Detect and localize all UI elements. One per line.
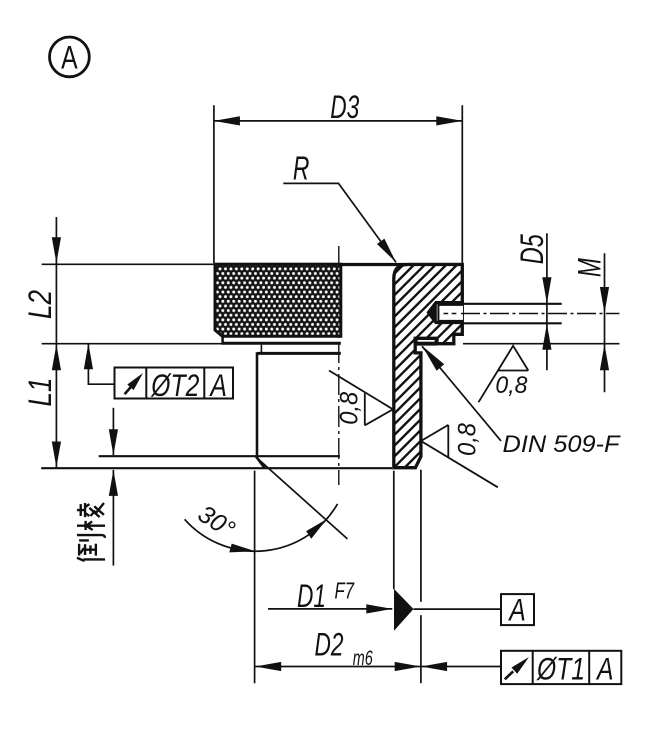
svg-text:D1: D1 (297, 578, 326, 614)
svg-text:A: A (61, 40, 78, 76)
svg-text:m6: m6 (353, 647, 373, 670)
svg-text:F7: F7 (335, 577, 355, 603)
svg-text:ØT1: ØT1 (536, 651, 585, 687)
svg-text:R: R (293, 150, 310, 187)
svg-text:0,8: 0,8 (336, 392, 364, 425)
svg-text:0,8: 0,8 (454, 423, 482, 456)
svg-text:L1: L1 (22, 378, 58, 407)
svg-text:DIN 509-F: DIN 509-F (503, 431, 621, 458)
svg-text:ØT2: ØT2 (151, 367, 200, 403)
svg-text:D5: D5 (514, 234, 550, 264)
svg-text:A: A (508, 592, 526, 628)
svg-text:A: A (595, 651, 613, 687)
svg-text:L2: L2 (22, 290, 58, 319)
svg-text:D3: D3 (330, 89, 359, 125)
svg-text:D2: D2 (315, 627, 344, 663)
svg-text:A: A (209, 367, 227, 403)
svg-text:M: M (571, 258, 607, 277)
svg-text:0,8: 0,8 (495, 372, 528, 399)
